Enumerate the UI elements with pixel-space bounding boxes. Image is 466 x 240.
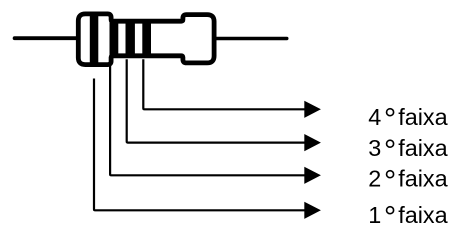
callout wire from band 1 <box>94 79 305 211</box>
wire: right lead of resistor <box>212 37 287 40</box>
band 1 (wide band on left cap) <box>90 15 99 65</box>
arrowhead 1st faixa <box>304 202 321 219</box>
svg-text:3° faixa: 3° faixa <box>368 133 448 168</box>
callout wire from band 3 <box>127 59 305 142</box>
callout wire from band 4 <box>143 59 304 109</box>
band 2 <box>110 19 119 57</box>
wire: left lead of resistor <box>15 36 80 40</box>
svg-text:4° faixa: 4° faixa <box>368 102 448 137</box>
arrowhead 4th faixa <box>304 101 321 118</box>
resistor R1 body (dog-bone outline) <box>78 14 214 65</box>
band 4 <box>142 19 151 57</box>
svg-text:2° faixa: 2° faixa <box>368 164 448 199</box>
arrowhead 3rd faixa <box>304 134 321 151</box>
arrowhead 2nd faixa <box>304 167 321 184</box>
svg-text:1° faixa: 1° faixa <box>368 200 448 235</box>
band 3 <box>126 19 135 57</box>
callout wire from band 2 <box>110 59 305 175</box>
